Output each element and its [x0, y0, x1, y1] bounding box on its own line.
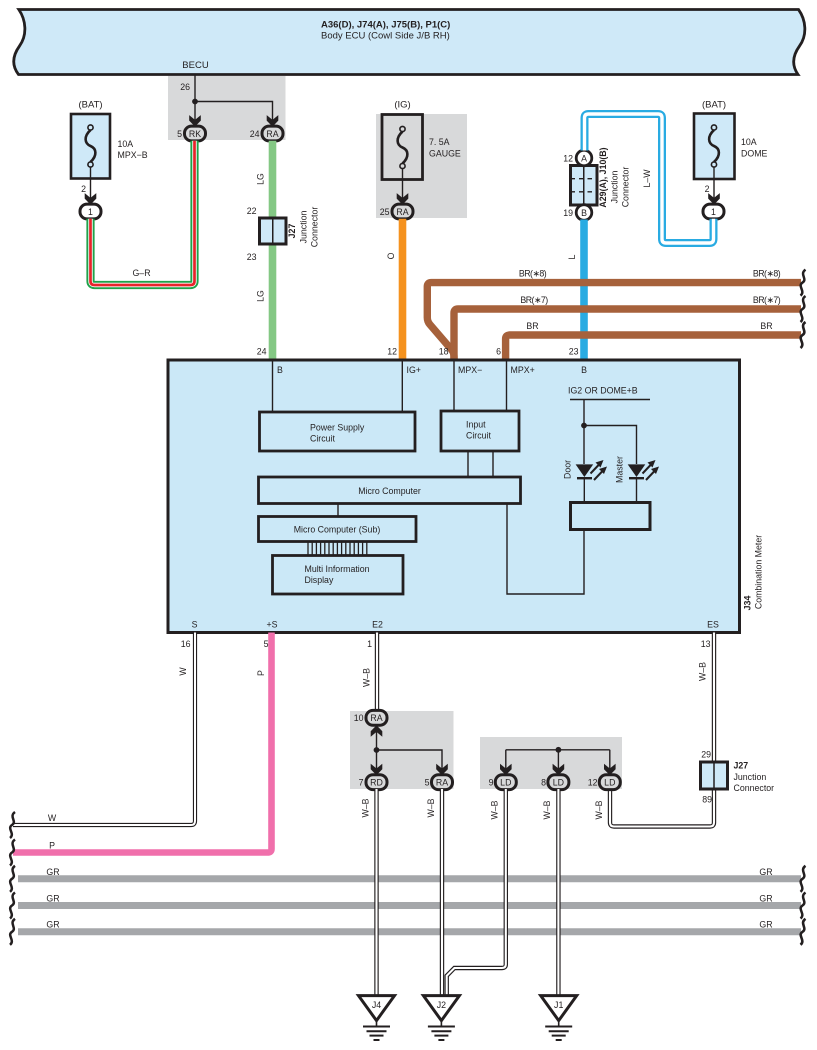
svg-text:RA: RA — [266, 129, 278, 139]
wire BR(*7) — [454, 309, 801, 360]
wire W-B 9LD to J2 (jog) — [447, 789, 506, 996]
wire break GR3 left — [10, 919, 15, 945]
svg-text:W–B: W–B — [426, 798, 436, 817]
svg-text:16: 16 — [181, 639, 191, 649]
wire L-W (DOME terminal 1 to terminal A) — [585, 114, 714, 243]
terminal 8 LD — [541, 764, 569, 790]
wire GR 1 — [18, 875, 801, 882]
svg-text:Micro Computer (Sub): Micro Computer (Sub) — [294, 525, 381, 535]
svg-text:Connector: Connector — [621, 167, 631, 208]
svg-text:A29(A), J10(B): A29(A), J10(B) — [598, 147, 608, 207]
svg-text:Junction: Junction — [299, 211, 309, 244]
svg-text:GR: GR — [759, 893, 772, 903]
svg-text:29: 29 — [701, 750, 711, 760]
svg-text:LD: LD — [500, 778, 511, 788]
svg-text:Input: Input — [466, 420, 486, 430]
svg-text:2: 2 — [81, 184, 86, 194]
junction shading (10RA/7RD/5RA) — [350, 711, 454, 789]
wire fuse MPX-B pin 2 — [90, 167, 92, 199]
svg-text:MPX−: MPX− — [458, 365, 482, 375]
svg-text:Connector: Connector — [734, 783, 775, 793]
wire IG2 node down — [583, 400, 585, 465]
svg-text:BR: BR — [760, 321, 772, 331]
svg-text:W–B: W–B — [361, 798, 371, 817]
svg-text:LD: LD — [604, 778, 615, 788]
ground J1 — [541, 996, 577, 1040]
svg-text:RA: RA — [370, 713, 382, 723]
svg-text:Master: Master — [615, 456, 625, 483]
svg-text:J27: J27 — [734, 761, 749, 771]
wire O (25 RA to meter pin 12) — [399, 219, 407, 360]
svg-text:9: 9 — [489, 778, 494, 788]
wire W-B 8LD to J1 — [542, 789, 558, 996]
svg-text:GR: GR — [46, 893, 59, 903]
svg-text:10A: 10A — [118, 139, 134, 149]
wire W-B 7RD to J4 — [361, 789, 377, 996]
svg-text:Door: Door — [563, 460, 573, 479]
svg-text:W–B: W–B — [490, 800, 500, 819]
Body ECU banner (Cowl Side J/B RH) — [14, 10, 805, 75]
terminal 5 RA — [425, 764, 453, 790]
svg-text:89: 89 — [702, 795, 712, 805]
node junction dot — [192, 99, 198, 105]
fuse 10A MPX-B (BAT) — [71, 100, 148, 179]
svg-text:W–B: W–B — [698, 662, 708, 681]
svg-text:Combination Meter: Combination Meter — [754, 535, 764, 609]
svg-text:J1: J1 — [554, 1000, 563, 1010]
svg-text:2: 2 — [705, 184, 710, 194]
terminal 1 (DOME) — [703, 204, 724, 219]
wire G-R (terminal 1 to RK) — [91, 141, 195, 285]
svg-text:23: 23 — [569, 347, 579, 357]
svg-text:BR(∗8): BR(∗8) — [519, 269, 547, 279]
svg-text:Multi Information: Multi Information — [305, 564, 370, 574]
terminal 5 RK — [185, 126, 206, 141]
terminal 10 RA with arrow — [354, 710, 387, 750]
svg-text:A36(D), J74(A), J75(B), P1(C): A36(D), J74(A), J75(B), P1(C) — [321, 20, 450, 31]
wire LD bus — [506, 750, 610, 769]
terminal arrow DOME pin 2 — [708, 193, 720, 205]
svg-text:LG: LG — [256, 290, 266, 302]
terminal arrow pin 2 — [85, 193, 97, 205]
svg-text:MPX+: MPX+ — [511, 365, 535, 375]
svg-text:DOME: DOME — [741, 149, 768, 159]
svg-text:L–W: L–W — [642, 169, 652, 188]
Multi Information Display box — [273, 556, 404, 595]
svg-text:1: 1 — [88, 207, 93, 217]
svg-text:BECU: BECU — [182, 60, 209, 71]
wire break GR2 right — [801, 893, 806, 919]
terminal 25 RA — [392, 204, 413, 219]
svg-text:Power Supply: Power Supply — [310, 423, 365, 433]
fuse 7.5A GAUGE (IG) — [382, 100, 461, 180]
svg-text:GR: GR — [46, 920, 59, 930]
svg-text:S: S — [192, 620, 198, 630]
svg-text:Connector: Connector — [310, 207, 320, 248]
svg-text:25: 25 — [380, 207, 390, 217]
svg-text:Circuit: Circuit — [310, 434, 335, 444]
svg-text:Junction: Junction — [610, 171, 620, 204]
svg-text:GAUGE: GAUGE — [429, 149, 461, 159]
svg-text:Display: Display — [305, 575, 334, 585]
svg-text:18: 18 — [439, 347, 449, 357]
svg-text:(BAT): (BAT) — [702, 100, 726, 111]
junction connector J27 (22/23) — [247, 206, 320, 262]
svg-text:24: 24 — [250, 129, 260, 139]
svg-text:6: 6 — [496, 347, 501, 357]
svg-text:(IG): (IG) — [394, 100, 410, 111]
wires Input Circuit to Micro Computer — [467, 451, 469, 477]
svg-text:8: 8 — [541, 778, 546, 788]
junction block shading (BECU branch) — [168, 76, 286, 140]
wire break W left — [10, 812, 15, 838]
Power Supply Circuit box — [260, 412, 416, 451]
svg-text:LD: LD — [553, 778, 564, 788]
svg-text:BR: BR — [526, 321, 538, 331]
ground J4 — [359, 996, 395, 1040]
wire GR 2 — [18, 902, 801, 909]
wire BECU pin 26 — [194, 75, 196, 121]
wire fuse DOME pin 2 — [713, 167, 715, 199]
wire W-B (pin 1 E2) — [362, 633, 378, 711]
combination meter J34 box — [168, 360, 740, 633]
svg-text:Junction: Junction — [734, 772, 767, 782]
wire BR — [506, 335, 801, 360]
svg-text:RK: RK — [189, 129, 201, 139]
svg-text:7: 7 — [359, 778, 364, 788]
svg-text:BR(∗7): BR(∗7) — [753, 295, 781, 305]
junction shading (9LD/8LD/12LD) — [480, 737, 622, 789]
svg-text:BR(∗7): BR(∗7) — [520, 295, 548, 305]
wire GR 3 — [18, 928, 801, 935]
svg-text:W: W — [178, 667, 188, 676]
terminal arrow pin 25 — [397, 193, 409, 205]
wire W-B 5RA to J2 — [426, 789, 442, 996]
svg-text:G–R: G–R — [132, 268, 150, 278]
ground J2 — [423, 996, 459, 1040]
svg-text:LG: LG — [256, 173, 266, 185]
wire Micro Computer to LED driver box — [507, 504, 584, 595]
wire LG (RA 24 to meter pin 24) — [269, 141, 277, 360]
svg-text:Body ECU (Cowl Side J/B RH): Body ECU (Cowl Side J/B RH) — [321, 31, 450, 42]
terminal B (19) — [576, 205, 592, 221]
wire break GR2 left — [10, 893, 15, 919]
svg-text:12: 12 — [563, 154, 573, 164]
svg-text:Micro Computer: Micro Computer — [358, 486, 421, 496]
wire Micro Computer to Sub — [337, 504, 339, 517]
svg-text:5: 5 — [264, 639, 269, 649]
terminal arrow into 24 RA — [267, 115, 279, 127]
svg-text:W–B: W–B — [542, 800, 552, 819]
wire break GR1 right — [801, 866, 806, 892]
svg-text:GR: GR — [759, 867, 772, 877]
svg-text:22: 22 — [247, 206, 257, 216]
terminal A (12) — [576, 150, 592, 166]
wire break BR(*8) right — [801, 270, 806, 296]
svg-text:W–B: W–B — [362, 668, 372, 687]
LED driver box — [571, 503, 651, 530]
svg-text:P: P — [49, 841, 55, 851]
svg-text:+S: +S — [266, 620, 277, 630]
ribbon Sub to Display — [308, 542, 367, 556]
svg-text:5: 5 — [177, 129, 182, 139]
svg-text:B: B — [581, 365, 587, 375]
wire break P left — [10, 840, 15, 866]
wire break GR1 left — [10, 866, 15, 892]
svg-text:19: 19 — [563, 208, 573, 218]
svg-text:L: L — [567, 254, 577, 259]
svg-text:J34: J34 — [743, 596, 753, 611]
svg-text:BR(∗8): BR(∗8) — [753, 269, 781, 279]
svg-text:J4: J4 — [372, 1000, 381, 1010]
svg-text:IG+: IG+ — [407, 365, 421, 375]
svg-text:GR: GR — [759, 920, 772, 930]
LED Master — [615, 456, 660, 503]
label A29(A), J10(B) Junction Connector — [598, 147, 631, 207]
svg-text:10: 10 — [354, 713, 364, 723]
wire fuse GAUGE to pin 25 — [402, 169, 404, 199]
terminal 12 LD — [588, 764, 621, 790]
wire break BR right — [801, 322, 806, 348]
node junction dot / branch — [374, 747, 380, 753]
svg-text:ES: ES — [707, 620, 719, 630]
wire W-B (pin 13 ES to 12 LD) — [610, 633, 714, 827]
svg-text:23: 23 — [247, 252, 257, 262]
svg-text:W–B: W–B — [594, 800, 604, 819]
svg-text:IG2 OR DOME+B: IG2 OR DOME+B — [568, 386, 638, 396]
svg-text:W: W — [48, 813, 57, 823]
junction connector A29(A) J10(B) — [571, 166, 598, 206]
svg-text:MPX−B: MPX−B — [118, 150, 148, 160]
svg-text:1: 1 — [367, 639, 372, 649]
Micro Computer box — [259, 477, 521, 504]
svg-text:J2: J2 — [437, 1000, 446, 1010]
wire BR(*8) — [427, 283, 801, 360]
Input Circuit box — [441, 411, 519, 451]
svg-text:Circuit: Circuit — [466, 431, 491, 441]
svg-text:7. 5A: 7. 5A — [429, 137, 450, 147]
svg-text:P: P — [256, 670, 266, 676]
svg-text:E2: E2 — [372, 620, 383, 630]
wire branch to RA — [195, 102, 273, 121]
junction connector J27 (29/89) — [701, 750, 775, 805]
svg-text:O: O — [386, 252, 396, 259]
svg-text:12: 12 — [588, 778, 598, 788]
wire break BR(*7) right — [801, 296, 806, 322]
svg-text:12: 12 — [387, 347, 397, 357]
svg-text:B: B — [277, 365, 283, 375]
svg-text:24: 24 — [257, 347, 267, 357]
Micro Computer (Sub) box — [259, 517, 417, 542]
svg-text:RA: RA — [436, 778, 448, 788]
terminal 1 (MPX-B) — [80, 204, 101, 219]
wire L (terminal B to meter pin 23) — [580, 220, 588, 361]
terminal arrow into 5 RK — [189, 115, 201, 127]
svg-text:RD: RD — [370, 778, 383, 788]
terminal 9 LD — [489, 764, 517, 790]
svg-text:5: 5 — [425, 778, 430, 788]
fuse 7.5A GAUGE (IG) shading — [376, 114, 467, 218]
svg-text:10A: 10A — [741, 137, 757, 147]
LED Door — [563, 460, 608, 503]
terminal 24 RA — [262, 126, 283, 141]
terminal 7 RD — [359, 764, 387, 790]
wire break GR3 right — [801, 919, 806, 945]
svg-text:GR: GR — [46, 867, 59, 877]
svg-text:1: 1 — [711, 207, 716, 217]
svg-text:(BAT): (BAT) — [78, 100, 102, 111]
svg-text:B: B — [581, 208, 587, 218]
svg-text:13: 13 — [701, 639, 711, 649]
svg-text:J27: J27 — [287, 224, 297, 239]
svg-text:A: A — [581, 154, 587, 164]
svg-text:RA: RA — [396, 207, 408, 217]
wire P (pin 5 +S) — [13, 633, 272, 853]
svg-text:26: 26 — [180, 82, 190, 92]
wire W (pin 16 S) — [13, 633, 195, 826]
fuse 10A DOME (BAT) — [694, 100, 768, 180]
